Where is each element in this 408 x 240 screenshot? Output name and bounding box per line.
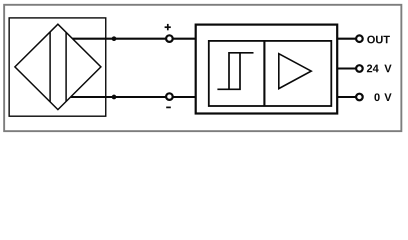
schmitt trigger hysteresis symbol (217, 53, 253, 90)
proximity sensor diamond (15, 24, 101, 109)
label OUT (367, 36, 390, 44)
divider line (263, 41, 265, 106)
amplifier triangle (279, 54, 311, 89)
label + (165, 24, 171, 30)
terminal - circle (166, 93, 173, 100)
sensor enclosure box (9, 18, 106, 116)
terminal 24V circle (356, 65, 363, 72)
wire 24V (337, 67, 356, 69)
sensor plate line right (65, 32, 67, 101)
terminal + circle (166, 35, 173, 42)
amplifier unit box (196, 25, 338, 114)
junction dot top (112, 36, 117, 41)
terminal 0V circle (356, 94, 363, 101)
junction dot bottom (112, 95, 117, 100)
signal processing inner box (209, 41, 331, 106)
label 24 V (367, 65, 392, 73)
sensor plate line left (49, 32, 51, 102)
terminal OUT circle (356, 35, 363, 42)
label - (166, 106, 171, 108)
wire OUT (337, 38, 356, 40)
label 0 V (374, 93, 391, 101)
wire bottom supply (71, 96, 197, 98)
wire 0V (337, 96, 356, 98)
wire top supply (73, 38, 197, 40)
